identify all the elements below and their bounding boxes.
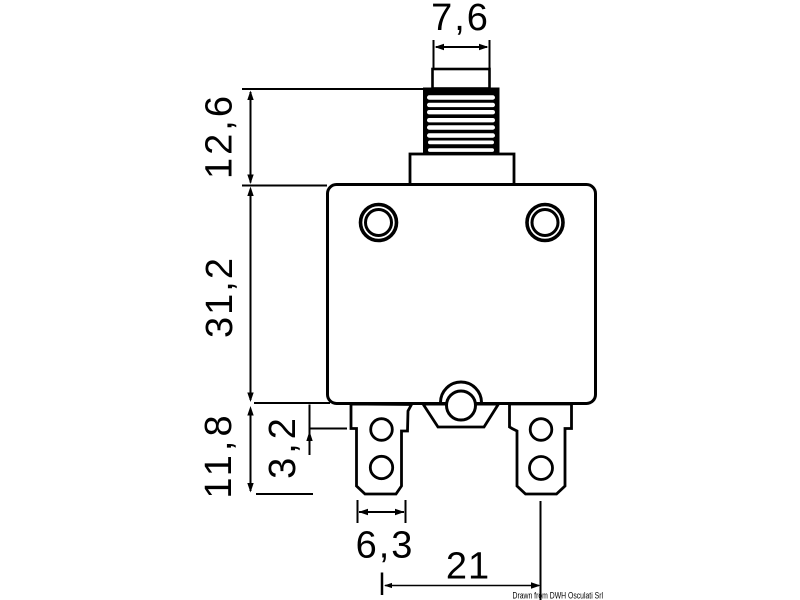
svg-text:3,2: 3,2	[262, 414, 304, 479]
svg-text:12,6: 12,6	[199, 93, 241, 179]
svg-text:7,6: 7,6	[431, 0, 490, 39]
svg-text:31,2: 31,2	[199, 256, 241, 338]
svg-text:Drawn from DWH Osculati Srl: Drawn from DWH Osculati Srl	[513, 591, 604, 600]
svg-text:11,8: 11,8	[198, 411, 240, 498]
svg-text:21: 21	[446, 546, 490, 588]
svg-text:6,3: 6,3	[356, 525, 415, 567]
